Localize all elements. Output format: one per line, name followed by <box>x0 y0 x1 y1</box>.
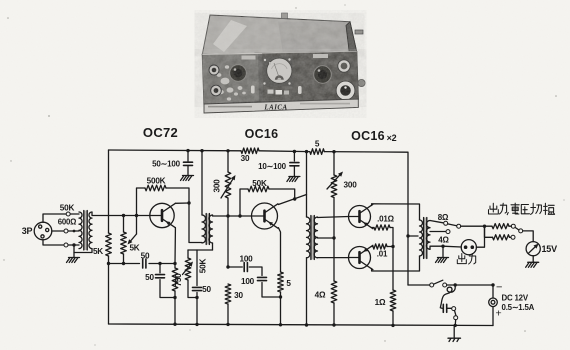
potentiometer 300 (with arrow) <box>225 172 231 198</box>
svg-text:50: 50 <box>145 273 154 282</box>
svg-text:50∼100: 50∼100 <box>152 160 181 169</box>
resistor 30 (Q2 base network) <box>225 284 231 304</box>
photo: white blotch left of panel <box>217 65 246 100</box>
resistor 500K (feedback) <box>145 185 166 191</box>
wire: T3 feed vertical from rail <box>305 150 308 153</box>
potentiometer 300 (output stage) <box>331 175 337 198</box>
wire: x408 supply drop joins switch <box>408 284 430 286</box>
wire: to bottom rail <box>227 304 229 324</box>
wire: T1 secondary top to Q1 base <box>92 212 150 216</box>
svg-text:5: 5 <box>286 279 291 288</box>
resistor 5 (series, top rail) <box>310 149 325 155</box>
ground (output common) <box>438 257 449 259</box>
photo: meter face <box>267 58 292 83</box>
switch: power on-off (on supply line) <box>430 283 434 287</box>
wire: Q2 collector diagonal up to supply/T3 drop line <box>278 195 306 205</box>
node: junction base line / 5K pot top <box>122 214 125 217</box>
wire: left branch to bottom rail <box>108 256 110 324</box>
potentiometer 5K (volume) <box>121 232 127 254</box>
wire: shunt cap to emitter leg <box>262 283 281 298</box>
transformer T2 core <box>206 214 210 245</box>
svg-text:OC16: OC16 <box>245 127 279 141</box>
node: base junction Q2 <box>238 214 241 217</box>
switch arm: speaker impedance select <box>457 224 461 228</box>
svg-text:4Ω: 4Ω <box>315 291 326 300</box>
wire + wiper arrow into 5K pot <box>136 216 138 235</box>
wire: 300 pot to center tap junction <box>333 198 335 282</box>
wire: bottom rail <box>109 324 494 326</box>
wire: rail to 10~100 cap <box>293 152 295 162</box>
node: base junction (500K / wiper feed) <box>135 214 138 217</box>
resistor 750 <box>174 264 176 269</box>
capacitor 50 (emitter branch) <box>193 286 202 288</box>
wire: common to output jack <box>443 245 461 248</box>
wire: 50K fb left leg <box>240 189 248 216</box>
wire: 50 cap shunt branch <box>159 264 161 273</box>
wire: to input ground <box>73 245 75 257</box>
transformer T3 core <box>310 216 314 260</box>
wire: switch 2 to bottom rail <box>454 320 457 326</box>
wire: left branch from rail down (5K bias chain) <box>108 150 110 233</box>
pilot lamp (DC input) <box>489 298 498 307</box>
photo: top-face light streak <box>213 20 247 52</box>
wire: Q3 emitter to .01 resistor <box>372 227 374 229</box>
label: output (Japanese) at jack <box>457 254 475 265</box>
transistor Q3 OC16 (upper) <box>349 206 371 228</box>
wire: shunt cap to 750 bottom <box>160 280 175 298</box>
photo: rear small tabs <box>282 13 288 19</box>
transistor Q4 OC16 (lower, mirrored) <box>349 247 371 269</box>
wire: 50K pot top leg <box>188 249 213 251</box>
wire: 750 to bottom rail <box>174 291 176 324</box>
wire: 5K pot bottom to mid rail <box>123 254 125 264</box>
capacitor (spark suppress) <box>442 304 444 312</box>
svg-text:50K: 50K <box>60 204 75 213</box>
node: rail tap for 10~100 <box>293 150 296 153</box>
node: DC minus corner <box>491 283 494 286</box>
photo: bottom name band <box>204 99 358 113</box>
svg-text:1Ω: 1Ω <box>375 298 386 307</box>
photo: pilot lamp top-right <box>338 60 350 72</box>
resistor .01 (Q4 emitter) <box>373 244 387 249</box>
wire: Q4 emitter to .01 resistor <box>372 246 373 248</box>
wire: T2 secondary top to Q2 base <box>213 215 252 216</box>
capacitor 50 (shunt) <box>156 274 165 276</box>
wire: meter to ground <box>532 256 534 262</box>
wire: 4 ohm to bottom rail <box>333 303 335 325</box>
node: rail tap 300 pot <box>226 149 229 152</box>
svg-text:10∼100: 10∼100 <box>258 162 287 171</box>
transformer T2 secondary coil <box>209 215 213 243</box>
wire: Q1 emitter down <box>174 228 176 264</box>
svg-text:100: 100 <box>241 277 255 286</box>
svg-text:×2: ×2 <box>387 133 397 143</box>
wire: 1 ohm to bottom rail <box>392 311 394 325</box>
svg-text:50: 50 <box>202 285 211 294</box>
svg-text:100: 100 <box>239 255 253 264</box>
photo: right knob <box>314 66 332 84</box>
resistor .01 ohm (Q3 emitter) <box>374 225 390 230</box>
ground (chassis, bottom right) <box>453 325 455 338</box>
photo: right side face <box>346 22 358 99</box>
ground (15V meter) <box>528 261 539 263</box>
transformer T4 secondary coil <box>426 221 430 250</box>
photo: meter screws <box>264 59 266 61</box>
svg-text:300: 300 <box>213 179 222 193</box>
wire: 50K pot bottom <box>188 280 197 298</box>
svg-text:OC72: OC72 <box>143 125 178 140</box>
svg-text:OC16: OC16 <box>351 129 385 143</box>
wire: DC minus down to pilot lamp <box>492 285 494 298</box>
transformer T3 secondary coil <box>314 217 317 258</box>
connector 3P input socket <box>34 222 52 240</box>
wire: emitter resistor to bottom rail <box>280 292 282 325</box>
svg-text:4Ω: 4Ω <box>438 236 449 245</box>
wire: cap 50 branch (x197) <box>196 250 198 286</box>
switch arm: meter range select <box>519 229 523 233</box>
node: rail tap 300 pot (output stage) <box>332 150 335 153</box>
svg-text:300: 300 <box>344 181 358 190</box>
resistor 1 ohm <box>390 290 396 311</box>
svg-text:8Ω: 8Ω <box>438 213 449 222</box>
choke pigtail + capacitor branch <box>440 285 455 308</box>
svg-text:.01Ω: .01Ω <box>377 215 395 224</box>
transformer T1 core <box>83 211 88 251</box>
svg-text:3P: 3P <box>22 226 33 236</box>
wire: T3 primary bottom to bottom rail <box>306 258 308 325</box>
wire: 300 pot down through base line to RC network <box>227 198 229 267</box>
wire: 500K right leg to collector node <box>166 188 189 203</box>
svg-text:DC 12V: DC 12V <box>502 294 529 303</box>
wire: T3 secondary bottom to Q4 base <box>318 257 349 259</box>
resistor 30 (series, top rail) <box>241 148 259 154</box>
node: supply tap to T4 primary center <box>406 234 409 237</box>
photo: input jack top-left <box>209 65 219 75</box>
resistor 5K (R1, left bias) <box>106 233 112 256</box>
resistor (range, lower) <box>493 235 510 240</box>
svg-text:.01: .01 <box>377 250 388 259</box>
wire: secondary 4-ohm tap <box>430 231 446 233</box>
svg-text:30: 30 <box>241 154 250 163</box>
wire: Q2 emitter down <box>278 228 280 272</box>
photo of LAICA amplifier: chassis top face <box>202 15 356 54</box>
photo: faint small print on band <box>208 106 252 108</box>
wire: rail to 300 pot <box>333 152 335 175</box>
wire: top rail right + drop to output transformer region <box>324 152 408 285</box>
wire: mid rail right segment <box>149 263 175 265</box>
wire: after cap <box>249 267 262 276</box>
photo: label strip above right knob <box>313 54 328 58</box>
wire: common to ground <box>442 246 444 257</box>
transformer T3 primary coil <box>307 217 310 258</box>
ground (input) <box>69 257 80 259</box>
transistor Q1 OC72 <box>150 203 174 227</box>
transformer T1 primary coil <box>79 212 82 249</box>
wire: rail to 300 pot <box>227 151 229 172</box>
capacitor 100 (shunt) <box>258 276 267 278</box>
connector output jack <box>461 240 476 255</box>
meter 15V (voltmeter with needle) <box>526 242 540 256</box>
ground (10~100 cap) <box>289 176 300 178</box>
wire: secondary 8-ohm tap <box>430 221 443 223</box>
photo: top face mottling <box>202 15 356 54</box>
capacitor 50 (series, mid rail) <box>142 259 144 268</box>
photo: left knob <box>230 65 247 82</box>
photo: label strip above left knob <box>242 56 256 60</box>
photo: small tabs below meter <box>268 90 274 94</box>
wire: tap to primary center <box>408 235 418 237</box>
wire: 500K left leg <box>137 188 146 216</box>
node: rail tap for 50~100 cap <box>186 149 189 152</box>
resistor 4 ohm <box>331 281 337 303</box>
resistor 50K (Q2 feedback) <box>248 186 269 192</box>
wire: down to 5K volume pot <box>123 216 125 233</box>
wire: to common emitter line <box>390 228 393 247</box>
wire: rail tap down to T2 primary top <box>200 149 203 152</box>
label: output, voltage select (Japanese) <box>489 203 555 215</box>
svg-text:5K: 5K <box>129 244 139 253</box>
wire: T3 secondary center tap <box>318 237 335 239</box>
wire: Q1 collector to node <box>175 202 189 204</box>
capacitor 50~100 <box>184 161 193 163</box>
transformer T1 secondary coil <box>89 212 92 249</box>
transformer T4 primary coil <box>420 220 423 256</box>
svg-text:50K: 50K <box>252 179 267 188</box>
wire: mid rail left segment <box>109 263 140 265</box>
wire: input top line with contact <box>43 214 66 222</box>
transformer T2 primary coil <box>202 215 206 243</box>
potentiometer 50K (tone) <box>185 258 191 280</box>
wire: cap 50 to bottom rail <box>196 293 198 325</box>
wiper arrow into 50K pot <box>183 265 190 274</box>
svg-text:750: 750 <box>174 273 183 287</box>
resistor (15V range, upper) <box>492 224 509 229</box>
wire: input middle line with contact <box>52 230 64 232</box>
wire: T1 secondary bottom to ground <box>74 249 92 253</box>
wire: jack to select node <box>476 226 484 247</box>
svg-text:500K: 500K <box>147 177 166 186</box>
node: input ground junction <box>72 243 75 246</box>
wire: input bottom line with contact <box>43 240 64 245</box>
wire: lamp to bottom rail corner <box>492 307 494 326</box>
node: mid-rail left junction <box>107 262 110 265</box>
wire: Q3 collector to T4 primary top <box>372 204 420 220</box>
photo: input jack bottom-left <box>211 85 222 96</box>
photo: overall grain <box>202 15 358 113</box>
photo: big output knob bottom-right <box>336 81 355 100</box>
resistor 5 (Q2 emitter) <box>278 272 284 292</box>
node: input middle-line junction <box>73 230 76 233</box>
wire: top supply rail <box>109 149 242 152</box>
capacitor 10~100 <box>290 162 299 164</box>
wire: T2 secondary bottom jog <box>212 243 214 250</box>
photo: meter bezel <box>264 57 293 87</box>
svg-text:600Ω: 600Ω <box>58 218 76 227</box>
svg-text:5K: 5K <box>93 247 103 256</box>
node: Q1 collector junction <box>187 201 190 204</box>
wire: RC line from x228 <box>226 265 229 268</box>
svg-text:50: 50 <box>141 252 150 261</box>
wire: join common emitter node <box>387 246 393 248</box>
photo: toggle switches <box>251 86 255 94</box>
wire: lower range branch <box>485 226 493 237</box>
wire: top rail middle <box>259 150 310 153</box>
wire: supply line to DC minus <box>447 284 493 286</box>
wire: T3 secondary top to Q3 base <box>318 217 349 218</box>
wire: cap to ground <box>293 166 295 176</box>
wire: 50K fb right leg down to collector diagonal <box>269 189 295 199</box>
svg-text:15V: 15V <box>542 244 558 254</box>
ground (50~100 cap) <box>183 175 194 177</box>
transformer T4 core <box>423 218 427 259</box>
wire: cap to switch 2 <box>447 307 452 309</box>
svg-text:30: 30 <box>234 291 243 300</box>
transistor Q2 OC16 <box>252 203 278 229</box>
wire: secondary common bottom <box>430 246 443 249</box>
wire: arm to output node <box>461 225 485 227</box>
wire: collector node down to T2 primary bottom <box>189 203 202 243</box>
photo: front panel <box>202 52 358 104</box>
wire: select node to voltage dropping resistors <box>485 225 493 227</box>
svg-text:50K: 50K <box>199 259 208 274</box>
svg-text:−: − <box>496 282 502 294</box>
wire: common emitter down to 1 ohm <box>392 247 394 291</box>
svg-text:5: 5 <box>315 140 320 149</box>
svg-text:0.5∼1.5A: 0.5∼1.5A <box>502 303 535 312</box>
wire: cap to ground <box>187 166 189 175</box>
wire: Q4 collector to T4 primary bottom <box>372 256 420 271</box>
wire: rail to cap <box>187 151 189 161</box>
wire: arm to 15V meter <box>523 231 534 242</box>
capacitor 100 (series) <box>243 263 245 272</box>
